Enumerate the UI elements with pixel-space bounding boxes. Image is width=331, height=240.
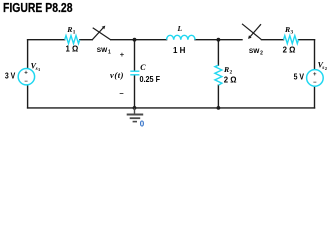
svg-text:1: 1 <box>73 30 76 36</box>
svg-text:1: 1 <box>108 49 111 55</box>
svg-text:R: R <box>284 25 290 34</box>
svg-text:1 Ω: 1 Ω <box>66 45 79 54</box>
svg-text:SW: SW <box>249 48 260 55</box>
svg-text:v(t): v(t) <box>110 70 124 80</box>
svg-text:+: + <box>313 72 317 78</box>
svg-text:0.25 F: 0.25 F <box>140 74 161 84</box>
svg-text:2: 2 <box>260 51 263 57</box>
svg-text:SW: SW <box>97 47 108 54</box>
svg-text:3: 3 <box>291 30 294 36</box>
svg-text:−: − <box>313 80 317 86</box>
svg-text:R: R <box>66 25 72 34</box>
svg-text:C: C <box>140 63 146 72</box>
svg-text:+: + <box>24 71 28 77</box>
svg-text:+: + <box>120 50 125 59</box>
svg-text:−: − <box>119 89 124 98</box>
svg-text:3 V: 3 V <box>5 70 16 80</box>
svg-text:1 H: 1 H <box>173 46 186 55</box>
svg-text:−: − <box>24 79 28 85</box>
svg-text:1: 1 <box>38 67 41 72</box>
svg-text:L: L <box>177 24 183 33</box>
svg-text:2 Ω: 2 Ω <box>224 75 237 84</box>
svg-text:0: 0 <box>140 120 145 129</box>
svg-text:2: 2 <box>325 66 328 71</box>
svg-text:5 V: 5 V <box>294 72 305 82</box>
svg-text:R: R <box>223 65 229 74</box>
svg-text:2 Ω: 2 Ω <box>283 46 296 55</box>
svg-text:FIGURE P8.28: FIGURE P8.28 <box>3 0 73 15</box>
